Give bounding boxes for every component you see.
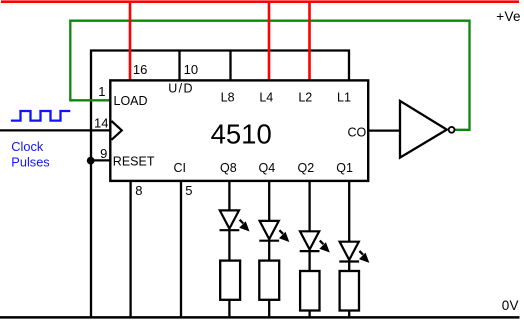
svg-text:14: 14	[94, 115, 108, 130]
wire reset pin 9	[90, 159, 110, 161]
wire R4 to 0V	[348, 311, 350, 318]
svg-text:Q2: Q2	[298, 161, 315, 175]
wire Q1 to LED D4	[348, 181, 350, 243]
svg-text:RESET: RESET	[113, 155, 155, 169]
wire Q8 to LED D1	[228, 181, 230, 211]
wire Q2 to LED D3	[308, 181, 310, 232]
svg-text:Q4: Q4	[259, 161, 276, 175]
inverter output bubble	[449, 127, 455, 133]
LED D3	[300, 231, 320, 251]
wire pin 5 CI to 0V	[180, 181, 182, 318]
clock edge symbol pin 14	[112, 121, 122, 140]
wire D1 to R1	[228, 230, 230, 260]
wire LOAD feedback (green, from inverter output to pin 1)	[70, 21, 469, 130]
wire R2 to 0V	[268, 300, 270, 318]
wire U/D pin stub	[178, 51, 180, 81]
svg-text:+Ve: +Ve	[496, 9, 521, 24]
LED D1 arrow	[240, 220, 249, 231]
svg-text:10: 10	[184, 62, 198, 77]
wire clock input to pin 14	[0, 129, 110, 131]
svg-text:Q1: Q1	[336, 161, 353, 175]
svg-text:Q8: Q8	[220, 161, 237, 175]
LED D1	[220, 210, 240, 230]
junction dot reset node	[87, 157, 95, 165]
wire R3 to 0V	[308, 311, 310, 318]
wire Q4 to LED D2	[268, 181, 270, 222]
0V supply rail	[0, 316, 520, 319]
LED D4	[339, 242, 359, 262]
+Ve supply rail	[1, 0, 519, 3]
svg-text:Pulses: Pulses	[11, 154, 49, 169]
svg-text:L8: L8	[221, 90, 235, 104]
LED D2	[259, 221, 279, 241]
LED D2 arrow	[279, 230, 288, 241]
resistor R2	[259, 261, 279, 300]
svg-text:9: 9	[100, 146, 107, 161]
wire R1 to 0V	[228, 300, 230, 318]
svg-text:L2: L2	[298, 90, 312, 104]
svg-text:Clock: Clock	[11, 139, 44, 154]
wire pin 8 to 0V	[129, 181, 131, 318]
IC U1 4510 counter body	[110, 80, 368, 180]
svg-text:5: 5	[185, 183, 192, 198]
LED D3 arrow	[320, 241, 329, 252]
wire CO to inverter	[368, 129, 400, 131]
wire +Ve to L4	[268, 2, 271, 80]
resistor R3	[300, 271, 319, 311]
resistor R1	[220, 261, 240, 300]
wire ground bus (0V up, across header, down to L1 pin)	[91, 51, 349, 318]
LED D4 arrow	[359, 251, 368, 262]
svg-text:16: 16	[133, 62, 147, 77]
svg-text:U/D: U/D	[168, 82, 194, 96]
wire D4 to R4	[348, 262, 350, 272]
svg-text:L4: L4	[259, 90, 273, 104]
inverter U2	[400, 101, 447, 158]
wire L8 pin stub	[229, 51, 231, 81]
svg-text:CI: CI	[174, 161, 187, 175]
wire D2 to R2	[268, 241, 270, 261]
svg-text:L1: L1	[337, 90, 351, 104]
resistor R4	[340, 271, 359, 311]
clock waveform	[11, 111, 70, 121]
wire +Ve to pin 16	[129, 2, 132, 80]
svg-text:8: 8	[135, 183, 142, 198]
wire D3 to R3	[308, 251, 310, 271]
svg-text:1: 1	[98, 84, 105, 99]
svg-text:LOAD: LOAD	[114, 94, 148, 108]
wire +Ve to L2	[308, 2, 311, 80]
svg-text:4510: 4510	[211, 118, 272, 149]
svg-text:0V: 0V	[502, 298, 519, 313]
svg-text:CO: CO	[347, 126, 366, 140]
